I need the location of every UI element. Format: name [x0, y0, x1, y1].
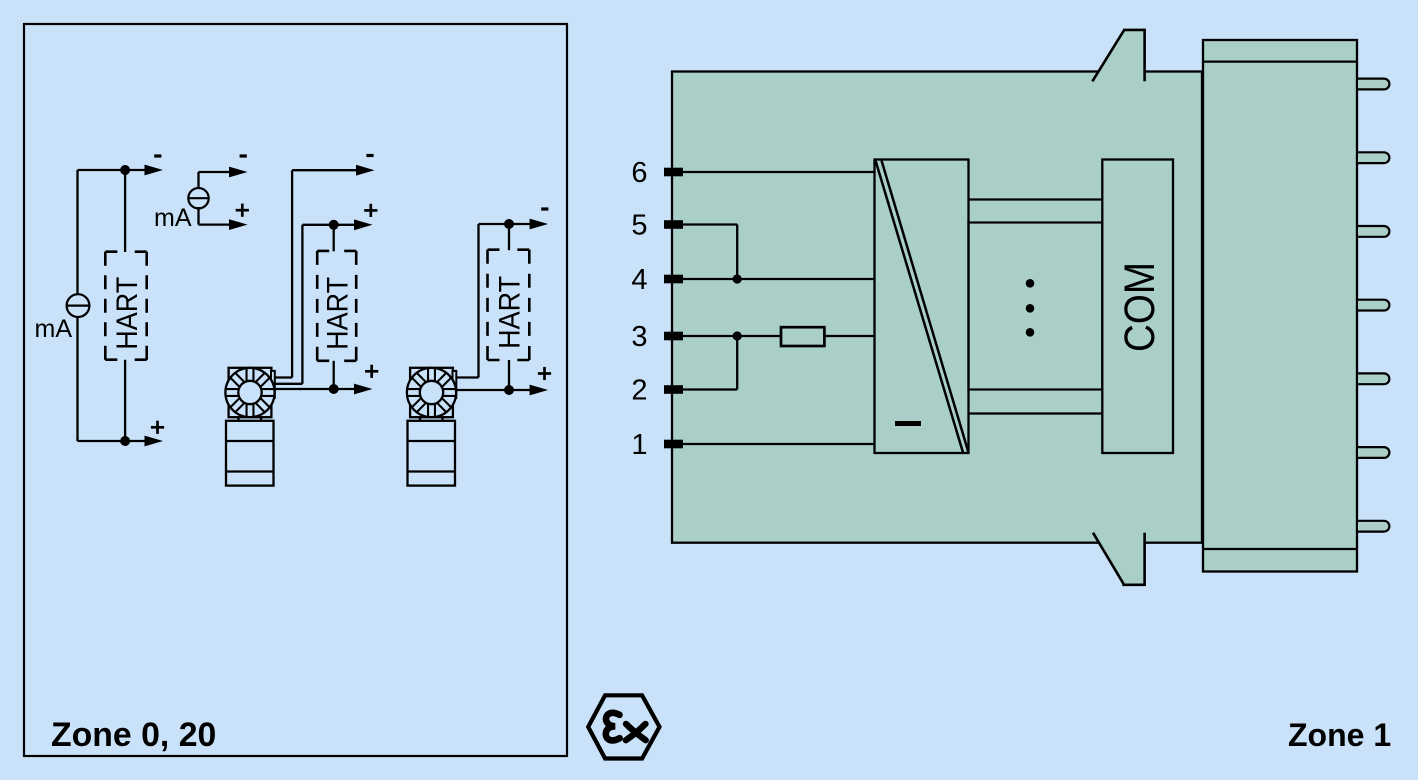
svg-text:Zone 0, 20: Zone 0, 20: [51, 716, 216, 754]
svg-text:Zone 1: Zone 1: [1288, 717, 1391, 753]
svg-text:6: 6: [631, 157, 647, 189]
svg-text:3: 3: [631, 321, 647, 353]
svg-text:HART: HART: [111, 277, 144, 350]
svg-text:COM: COM: [1116, 262, 1164, 352]
svg-text:HART: HART: [493, 276, 526, 349]
svg-text:4: 4: [631, 264, 647, 296]
svg-text:2: 2: [631, 375, 647, 407]
svg-text:HART: HART: [322, 277, 355, 350]
svg-text:5: 5: [631, 210, 647, 242]
svg-text:mA: mA: [154, 204, 192, 232]
svg-text:1: 1: [631, 429, 647, 461]
svg-text:mA: mA: [35, 315, 73, 343]
